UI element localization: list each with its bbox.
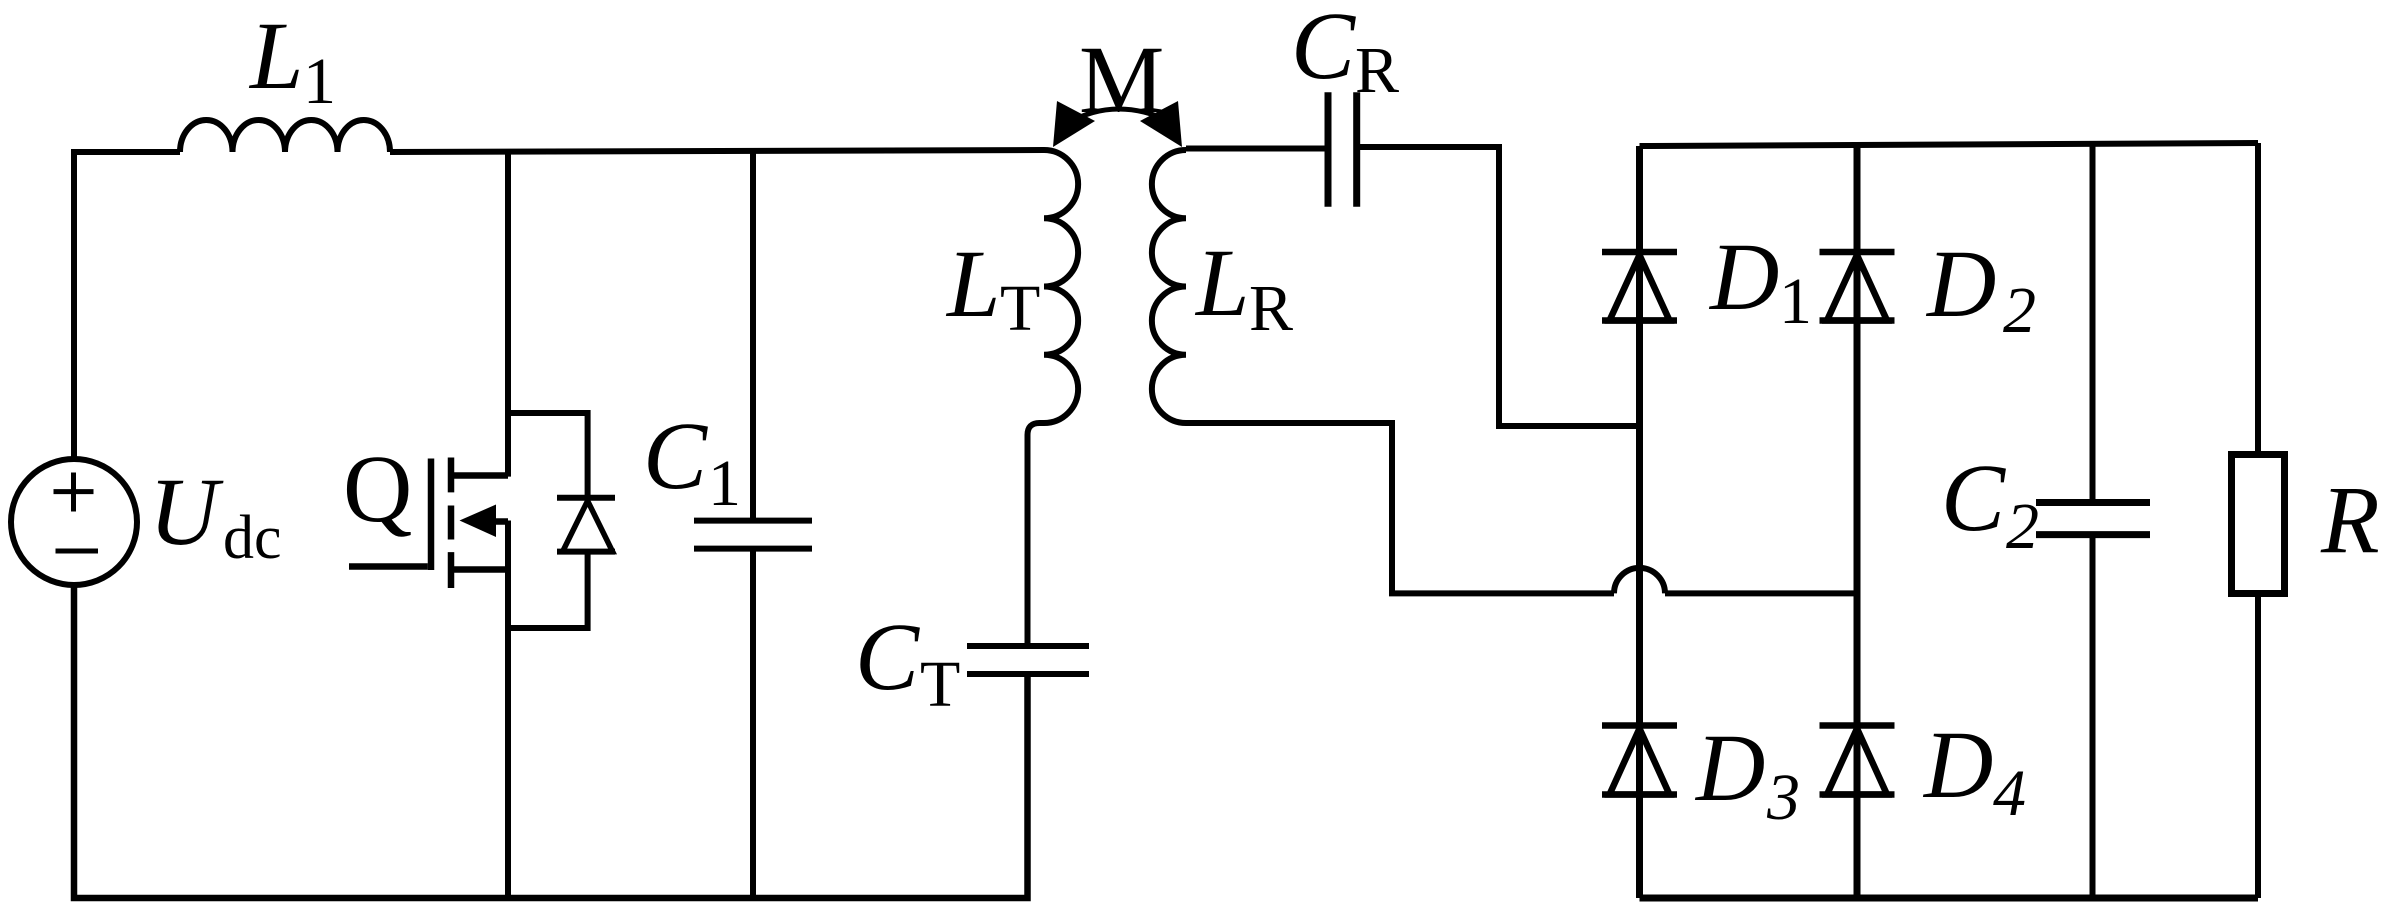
mutual arrowhead right: [1140, 101, 1182, 147]
capacitor C2: [2090, 144, 2096, 898]
transistor Q gate bar: [428, 459, 435, 571]
svg-text:1: 1: [1779, 265, 1812, 338]
mutual coupling arc M: [1066, 109, 1175, 124]
inductor LT (transformer primary): [1028, 150, 1079, 646]
svg-text:D: D: [1922, 711, 1993, 818]
svg-text:C: C: [855, 603, 920, 710]
svg-text:M: M: [1079, 26, 1164, 133]
svg-text:Q: Q: [343, 435, 412, 542]
transistor Q body arrow: [460, 505, 497, 538]
wire LR return down to lower junction: [1186, 423, 1614, 593]
resistor R body: [2232, 455, 2285, 594]
bridge left leg: [1636, 146, 1643, 898]
transistor Q drain vertical: [505, 151, 511, 477]
svg-text:R: R: [1249, 272, 1293, 345]
svg-text:R: R: [2320, 466, 2380, 573]
diode D3 triangle: [1610, 729, 1670, 795]
wire left vertical bottom + bottom rail left + CT lower wire: [74, 585, 1028, 898]
svg-text:4: 4: [1993, 757, 2026, 830]
minus sign: [56, 549, 99, 554]
bridge bottom rail: [1640, 895, 2259, 902]
inductor L1: [180, 120, 390, 152]
svg-text:2: 2: [2003, 274, 2036, 347]
svg-text:3: 3: [1766, 761, 1800, 834]
voltage source Udc circle: [11, 459, 137, 585]
transistor Q channel dashes: [448, 458, 455, 589]
svg-text:L: L: [1194, 229, 1249, 336]
wire lower junction to right leg: [1665, 590, 1857, 596]
svg-text:L: L: [248, 2, 303, 109]
transistor Q gate lead: [349, 563, 428, 570]
svg-text:T: T: [1000, 272, 1040, 345]
svg-text:1: 1: [303, 45, 336, 118]
capacitor CT: [967, 646, 1089, 674]
inductor LR (transformer secondary): [1152, 150, 1186, 423]
wire hop over left bridge leg: [1614, 568, 1665, 594]
resistor R wires: [2255, 143, 2261, 898]
diode D4 triangle: [1827, 729, 1887, 795]
svg-text:L: L: [945, 230, 1000, 337]
svg-text:C: C: [1941, 444, 2006, 551]
plus sign: [54, 473, 94, 512]
bridge right leg: [1854, 145, 1861, 898]
diode D1 bar: [1602, 252, 1677, 321]
wire left vertical top + top rail: [74, 152, 180, 459]
mutual arrowhead left: [1053, 101, 1095, 147]
body diode triangle: [563, 501, 613, 552]
svg-text:1: 1: [708, 447, 741, 520]
diode D4 bar: [1820, 726, 1895, 795]
body diode cathode bar: [557, 498, 615, 552]
svg-text:C: C: [643, 402, 708, 509]
bridge top rail: [1640, 143, 2259, 146]
capacitor C1: [694, 151, 812, 898]
svg-text:2: 2: [2006, 490, 2039, 563]
wire LR top to CR: [1186, 146, 1328, 152]
svg-text:C: C: [1291, 0, 1356, 99]
diode D2 bar: [1820, 252, 1895, 321]
diode D2 triangle: [1827, 255, 1887, 321]
capacitor CR plates: [1328, 92, 1357, 207]
wire CR to upper junction to left leg: [1357, 147, 1640, 426]
svg-text:T: T: [920, 648, 960, 721]
svg-text:D: D: [1708, 223, 1779, 330]
diode D3 bar: [1602, 726, 1677, 795]
wire top rail to transformer: [390, 150, 1044, 152]
diode D1 triangle: [1610, 255, 1670, 321]
transistor Q drain/source/body leads: [454, 476, 508, 570]
body diode branch wires: [508, 413, 588, 628]
svg-text:R: R: [1355, 34, 1399, 107]
svg-text:dc: dc: [223, 504, 282, 572]
svg-text:U: U: [149, 458, 224, 565]
svg-text:D: D: [1694, 714, 1765, 821]
transistor Q source vertical: [505, 521, 511, 899]
svg-text:D: D: [1925, 230, 1996, 337]
